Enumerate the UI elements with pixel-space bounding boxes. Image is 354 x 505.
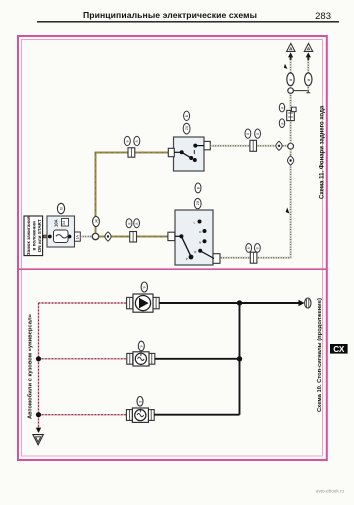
svg-text:8: 8 — [280, 107, 284, 109]
black wire lamp3 to bus — [154, 414, 239, 416]
page header title — [83, 10, 257, 20]
svg-text:9: 9 — [138, 401, 142, 403]
svg-text:N: N — [199, 240, 201, 244]
oval pair above lower connector — [246, 244, 260, 253]
lamp L1 high-mounted stop (LED) — [127, 294, 160, 312]
svg-text:Схема 10. Стоп-сигналы (продол: Схема 10. Стоп-сигналы (продолжение) — [317, 298, 323, 412]
left feed arrowhead — [288, 52, 293, 60]
inline connector on hatched wire — [250, 140, 257, 151]
arrow to sheet connector — [299, 298, 311, 308]
olive wire junction to transmission switch — [99, 236, 169, 238]
black wire lamp1 to bus — [159, 302, 299, 304]
wire fuse to junction (olive) — [80, 235, 92, 237]
hatched wire from upper switch to trunk — [210, 145, 288, 147]
lamp L3 stop light right — [126, 408, 154, 422]
inline connector on upper trunk — [287, 107, 296, 120]
page number 283 — [315, 11, 331, 22]
black wire lamp2 to bus — [155, 358, 240, 360]
fuse number box — [62, 219, 69, 227]
selector contacts — [179, 234, 183, 238]
svg-text:8: 8 — [126, 140, 130, 142]
lamp L2 stop light left — [127, 352, 155, 366]
svg-text:8: 8 — [135, 223, 139, 225]
oval label above lamp L1 — [141, 282, 147, 292]
ground symbol — [33, 435, 43, 445]
switch contacts — [180, 150, 184, 154]
svg-text:8: 8 — [256, 247, 260, 249]
svg-text:10A: 10A — [54, 219, 59, 227]
svg-text:СХ: СХ — [333, 345, 345, 354]
svg-text:Схема 11. Фонари заднего хода: Схема 11. Фонари заднего хода — [319, 105, 325, 199]
wire corner to upper switch (olive horizontal) — [95, 152, 169, 154]
watermark — [316, 488, 345, 493]
wire ignition to fuse box (olive) — [43, 235, 54, 238]
trunk hatched wire down to lower switch — [220, 149, 290, 258]
small arrow mark on trunk — [286, 208, 290, 214]
svg-text:1A: 1A — [76, 235, 80, 240]
svg-text:Автомобили с кузовом «универса: Автомобили с кузовом «универсал» — [27, 314, 34, 419]
junction node C (open circle top) — [288, 88, 294, 94]
oval label on right riser — [305, 73, 312, 86]
oval pair above olive connector — [126, 219, 139, 228]
oval labels above lower switch — [194, 183, 201, 209]
transmission range switch box (lower) — [168, 210, 220, 265]
ignition switch label box — [24, 216, 43, 256]
figure outer pink frame — [18, 36, 327, 460]
left pin connector — [168, 148, 174, 156]
oval pair above upper inline connector — [124, 136, 140, 145]
right feed arrowhead — [306, 52, 311, 60]
CX tab — [330, 344, 348, 354]
junction node B (open circle on trunk) — [288, 143, 294, 149]
left riser wire to triangle — [290, 56, 292, 88]
pink wire to lamp 3 — [39, 414, 128, 416]
svg-text:Ж: Ж — [93, 219, 98, 223]
section divider pink line — [19, 268, 327, 270]
small arrow mark on left riser — [284, 64, 288, 69]
oval pair above hatched-wire connector — [245, 129, 261, 138]
fuse box F (light blue) — [47, 216, 75, 247]
junction dot feed bus middle — [237, 356, 242, 361]
left caption wagon body (vertical) — [27, 314, 34, 419]
diamond splice below junction — [288, 156, 294, 165]
svg-text:8: 8 — [135, 140, 139, 142]
fuse box output connector — [75, 232, 81, 241]
reverse light switch box (upper) — [168, 137, 210, 171]
svg-text:в положении: в положении — [32, 221, 37, 251]
svg-text:8: 8 — [127, 223, 131, 225]
pink ground bus (vertical) — [38, 303, 40, 429]
inline connector on upper olive wire — [128, 148, 135, 157]
right pin connector — [204, 141, 210, 149]
trunk hatched wire up to supply — [289, 93, 291, 143]
pink wire to lamp 2 — [39, 358, 128, 360]
svg-text:B: B — [58, 207, 63, 210]
junction dot bus/lamp3 — [36, 412, 41, 417]
svg-text:avto-ebook.ru: avto-ebook.ru — [316, 488, 345, 493]
right riser wire to triangle — [307, 56, 309, 91]
right supply triangle — [304, 43, 312, 51]
oval label above lamp L3 — [137, 397, 143, 407]
inline connector on lower hatched run — [250, 252, 257, 263]
inline connector on olive wire — [130, 232, 137, 243]
wire junction up-branch (olive vertical) — [95, 153, 97, 234]
oval label above fuse box — [57, 203, 64, 213]
diamond splice on hatched wire — [276, 141, 282, 150]
figure inner pink frame — [22, 40, 323, 457]
svg-text:P: P — [186, 257, 188, 261]
left pin connector — [168, 232, 175, 240]
svg-text:9: 9 — [140, 345, 144, 347]
svg-text:34: 34 — [61, 220, 66, 225]
svg-text:20: 20 — [196, 201, 200, 205]
fuse symbol — [54, 230, 69, 243]
svg-text:20: 20 — [185, 126, 189, 130]
svg-text:8: 8 — [280, 123, 284, 125]
scheme 10 caption (vertical) — [317, 298, 323, 412]
oval label on left riser — [287, 73, 294, 86]
svg-text:ON или START: ON или START — [37, 219, 42, 252]
header rule — [37, 21, 339, 23]
svg-text:283: 283 — [315, 11, 331, 22]
link wire to right riser — [293, 91, 310, 93]
svg-text:8: 8 — [247, 247, 251, 249]
right pin connector — [213, 254, 220, 264]
scheme 11 caption (vertical) — [319, 105, 325, 199]
svg-text:9: 9 — [143, 286, 147, 288]
pink wire to lamp 1 — [39, 302, 128, 304]
svg-text:8: 8 — [246, 133, 250, 135]
black feed bus (vertical) — [239, 303, 241, 415]
junction node A (open circle) — [92, 233, 98, 239]
ground arrowhead — [36, 428, 41, 433]
junction dot bus/lamp2 — [36, 356, 41, 361]
oval wire label on vertical branch — [93, 217, 100, 227]
junction dot feed bus top — [237, 300, 242, 305]
oval labels above upper switch — [183, 111, 190, 134]
left supply triangle — [287, 43, 295, 51]
svg-text:8: 8 — [256, 133, 260, 135]
oval pair left of upper trunk connector — [279, 103, 284, 127]
diamond splice on olive wire — [105, 232, 111, 241]
svg-text:Принципиальные электрические с: Принципиальные электрические схемы — [83, 10, 257, 20]
svg-text:Замок зажигания: Замок зажигания — [26, 216, 31, 255]
oval label above lamp L2 — [138, 341, 144, 351]
